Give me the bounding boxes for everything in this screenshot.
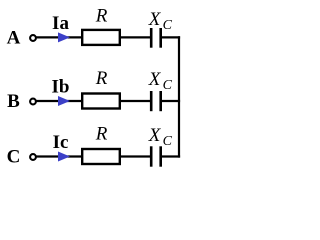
capacitor XC (phase B)	[151, 91, 161, 111]
svg-text:C: C	[163, 78, 173, 93]
terminal B	[30, 99, 36, 105]
capacitor XC (phase C)	[151, 146, 161, 166]
value label XC (phase B)	[148, 69, 173, 93]
capacitor XC (phase A)	[151, 28, 161, 48]
wire B1	[36, 100, 82, 102]
svg-text:R: R	[95, 124, 108, 145]
svg-text:R: R	[95, 68, 108, 89]
current arrow Ib	[58, 96, 70, 106]
svg-text:X: X	[148, 9, 162, 30]
wire B3	[162, 100, 180, 102]
terminal C	[30, 154, 36, 160]
svg-text:Ib: Ib	[52, 77, 70, 98]
svg-text:C: C	[163, 134, 173, 149]
value label XC (phase A)	[148, 9, 173, 33]
bus wire (right vertical)	[178, 36, 180, 157]
wire C3	[162, 155, 180, 157]
wire C2	[121, 155, 150, 157]
svg-text:Ic: Ic	[53, 132, 69, 153]
current arrow Ia	[58, 32, 70, 42]
resistor R (phase C)	[82, 149, 120, 164]
wire A1	[36, 36, 82, 38]
terminal A	[30, 35, 36, 41]
wire B2	[121, 100, 150, 102]
svg-text:X: X	[148, 125, 162, 146]
svg-text:B: B	[7, 91, 20, 112]
wire A2	[121, 36, 150, 38]
svg-text:C: C	[7, 147, 21, 168]
resistor R (phase A)	[82, 30, 120, 45]
svg-text:Ia: Ia	[52, 13, 69, 34]
svg-text:C: C	[163, 18, 173, 33]
resistor R (phase B)	[82, 94, 120, 109]
wire C1	[36, 155, 82, 157]
value label XC (phase C)	[148, 125, 173, 149]
svg-text:R: R	[95, 6, 108, 27]
svg-text:A: A	[7, 28, 21, 49]
current arrow Ic	[58, 152, 70, 162]
wire A3	[162, 36, 180, 38]
svg-text:X: X	[148, 69, 162, 90]
